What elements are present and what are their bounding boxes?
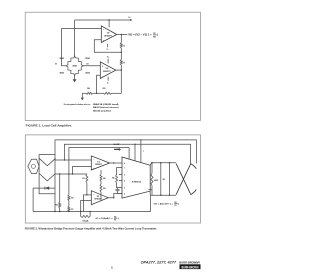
svg-text:9: 9 — [111, 266, 113, 270]
svg-text:OPA2277: OPA2277 — [104, 34, 113, 37]
svg-text:350Ω: 350Ω — [85, 58, 90, 60]
svg-text:INA122 (amplifier): INA122 (amplifier) — [93, 109, 111, 112]
svg-text:V2: V2 — [86, 63, 88, 65]
svg-text:OPA2277: OPA2277 — [94, 198, 101, 201]
svg-text:R4: R4 — [55, 204, 57, 207]
svg-text:INA125 (load and reference): INA125 (load and reference) — [93, 106, 119, 109]
svg-text:V–: V– — [107, 83, 109, 85]
svg-text:R7: R7 — [71, 209, 73, 211]
svg-text:OPA2277: OPA2277 — [95, 163, 102, 166]
svg-text:R2: R2 — [175, 202, 177, 204]
svg-text:R3: R3 — [103, 188, 105, 190]
svg-text:350Ω: 350Ω — [72, 66, 77, 68]
svg-text:R1: R1 — [114, 220, 116, 222]
svg-text:BURR-BROWN: BURR-BROWN — [182, 265, 199, 269]
svg-text:IO = 100μA 1 +: IO = 100μA 1 + — [96, 217, 114, 220]
svg-text:100μA: 100μA — [82, 220, 89, 223]
svg-text:350Ω: 350Ω — [59, 58, 64, 60]
svg-text:VO = (V2 – V1) 1 +: VO = (V2 – V1) 1 + — [128, 35, 152, 37]
svg-text:For integrated solution refer: For integrated solution refer to: — [64, 103, 91, 106]
svg-text:VO = 40mV/V 1 +: VO = 40mV/V 1 + — [154, 203, 174, 206]
svg-text:INA118 (350Ω load): INA118 (350Ω load) — [93, 103, 119, 106]
svg-text:R1: R1 — [82, 178, 84, 180]
svg-text:R2: R2 — [114, 216, 116, 218]
svg-text:R2: R2 — [103, 178, 105, 180]
svg-text:R6: R6 — [71, 198, 73, 200]
svg-text:BURR-BROWN®: BURR-BROWN® — [179, 260, 200, 264]
svg-text:OPA277, 2277, 4277: OPA277, 2277, 4277 — [141, 261, 177, 265]
svg-text:FIGURE 2. Wheatstone Bridge Pr: FIGURE 2. Wheatstone Bridge Pressure Gau… — [25, 227, 157, 231]
svg-text:OPA2277: OPA2277 — [103, 70, 112, 73]
svg-text:XTR101: XTR101 — [132, 181, 143, 183]
svg-text:ILOOP: ILOOP — [114, 144, 121, 146]
svg-text:V1: V1 — [55, 64, 57, 66]
svg-text:R1: R1 — [175, 205, 177, 207]
svg-text:FIGURE 1. Load Cell Amplifier.: FIGURE 1. Load Cell Amplifier. — [26, 124, 72, 128]
svg-text:V–: V– — [107, 49, 109, 51]
svg-text:350Ω: 350Ω — [59, 73, 64, 75]
svg-text:R5: R5 — [112, 178, 114, 180]
svg-text:100Ω: 100Ω — [154, 180, 159, 182]
svg-text:350Ω: 350Ω — [85, 73, 90, 75]
